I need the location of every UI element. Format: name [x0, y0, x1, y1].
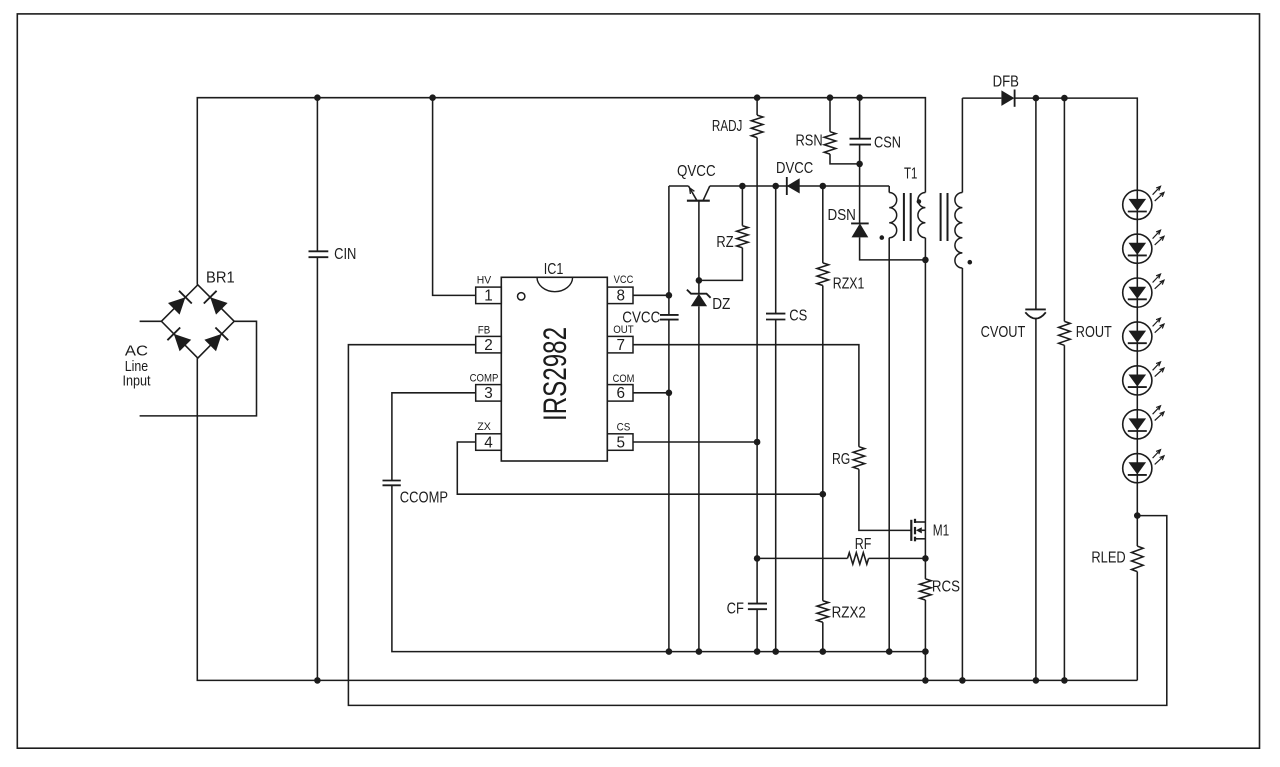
pin 7 box — [607, 336, 633, 353]
svg-text:2: 2 — [484, 337, 493, 354]
svg-text:IC1: IC1 — [544, 261, 564, 278]
svg-text:QVCC: QVCC — [677, 163, 716, 180]
wire OUT pin7 to RG — [633, 345, 859, 447]
T1 core bars left — [903, 193, 905, 241]
svg-text:RG: RG — [832, 451, 850, 468]
svg-text:VCC: VCC — [614, 274, 634, 286]
svg-text:IRS2982: IRS2982 — [537, 327, 573, 421]
wire HV from bus to pin 1 — [433, 98, 476, 296]
svg-text:CCOMP: CCOMP — [400, 489, 448, 506]
wire CVCC to ground rail — [668, 320, 670, 652]
wire RG to M1 gate — [859, 469, 911, 530]
BR1 diode top-left — [168, 297, 185, 314]
junction dots — [314, 94, 321, 101]
svg-text:RZX1: RZX1 — [833, 276, 865, 293]
LED D4 — [1123, 322, 1152, 351]
T1 secondary winding — [961, 98, 963, 192]
wire primary bottom to M1 drain — [924, 260, 926, 522]
resistor ROUT — [1063, 98, 1065, 321]
svg-text:COMP: COMP — [470, 372, 499, 384]
pin 1 box — [476, 287, 502, 304]
svg-text:HV: HV — [477, 275, 492, 287]
T1 primary phase dot — [917, 199, 922, 204]
LED D2 — [1123, 234, 1152, 263]
svg-text:COM: COM — [613, 373, 635, 385]
pin 6 box — [607, 385, 633, 402]
resistor RF — [757, 557, 847, 559]
capacitor CVCC — [660, 314, 679, 316]
wire LED string connectors — [1136, 219, 1138, 234]
svg-text:RSN: RSN — [796, 132, 823, 149]
LED D5 — [1123, 366, 1152, 395]
pin 3 box — [476, 385, 502, 402]
wire CS pin5 — [633, 441, 757, 443]
svg-text:RCS: RCS — [932, 579, 960, 596]
svg-text:T1: T1 — [904, 166, 917, 183]
T1 primary winding — [918, 193, 926, 238]
svg-text:3: 3 — [484, 385, 493, 402]
svg-text:AC: AC — [125, 344, 148, 360]
capacitor CS — [766, 313, 785, 315]
LED D1 — [1123, 190, 1152, 219]
capacitor CF — [748, 603, 767, 605]
svg-text:1: 1 — [484, 288, 493, 305]
svg-text:RZ: RZ — [716, 234, 733, 251]
T1 core bars right — [940, 193, 942, 241]
pin 4 box — [476, 434, 502, 451]
resistor RCS — [924, 558, 926, 579]
wire RZ bottom — [699, 248, 743, 281]
svg-text:RADJ: RADJ — [712, 118, 743, 135]
wire ground rail upper — [392, 485, 926, 680]
svg-text:5: 5 — [616, 434, 625, 451]
wire top bus — [197, 98, 925, 285]
diode DFB — [1001, 90, 1014, 106]
wire LED7 to RLED node — [1136, 483, 1138, 546]
resistor RADJ — [756, 98, 758, 115]
LED D7 — [1123, 454, 1152, 483]
zener diode DZ — [698, 280, 700, 293]
resistor RSN — [829, 98, 831, 132]
node AC line input stub upper — [140, 320, 162, 322]
BR1 diode bottom-left — [174, 334, 191, 351]
transistor M1 — [910, 520, 912, 541]
wire VCC pin8 — [633, 294, 669, 296]
svg-text:BR1: BR1 — [206, 269, 235, 286]
wire ZX pin4 to RZX divider — [457, 442, 823, 494]
BR1 diode bottom-right — [204, 334, 221, 351]
svg-text:DZ: DZ — [712, 296, 730, 313]
svg-text:8: 8 — [616, 288, 625, 305]
svg-text:4: 4 — [484, 434, 493, 451]
resistor RZX2 — [817, 601, 829, 623]
diode DVCC — [787, 178, 800, 193]
pin 8 box — [607, 287, 633, 304]
BR1 diode top-right — [210, 297, 227, 314]
transistor QVCC — [669, 185, 689, 187]
resistor RLED — [1132, 546, 1144, 572]
pin 2 box — [476, 336, 502, 353]
svg-text:RF: RF — [855, 536, 872, 553]
IC1 notch — [537, 277, 573, 291]
T1 aux winding — [888, 186, 890, 193]
svg-text:RLED: RLED — [1091, 550, 1125, 567]
capacitor CCOMP — [383, 480, 401, 482]
wire COM pin6 — [633, 392, 669, 394]
svg-text:CIN: CIN — [334, 246, 356, 263]
capacitor CVOUT — [1035, 98, 1037, 309]
pin 5 box — [607, 434, 633, 451]
wire VCC vertical — [668, 186, 670, 315]
svg-text:CS: CS — [617, 421, 631, 433]
svg-text:CF: CF — [727, 601, 744, 618]
IC1 pin1 marker circle — [518, 293, 525, 300]
diode DSN — [859, 164, 861, 224]
svg-text:ZX: ZX — [477, 421, 491, 433]
svg-text:M1: M1 — [933, 522, 950, 539]
bridge rectifier BR1 diamond — [161, 285, 234, 358]
resistor RZX1 — [822, 186, 824, 263]
wire RZ top — [741, 186, 743, 226]
op-amp IC1 body — [501, 277, 607, 461]
svg-text:Input: Input — [122, 374, 150, 390]
svg-text:FB: FB — [478, 324, 491, 336]
svg-text:CVCC: CVCC — [622, 309, 660, 326]
wire COMP pin3 to CCOMP — [392, 393, 476, 481]
svg-text:6: 6 — [616, 385, 625, 402]
svg-text:DFB: DFB — [993, 73, 1019, 90]
resistor RG — [853, 447, 865, 470]
svg-text:ROUT: ROUT — [1076, 324, 1112, 341]
wire CS cap top — [775, 186, 777, 314]
svg-text:RZX2: RZX2 — [832, 605, 866, 622]
svg-text:CS: CS — [789, 308, 807, 325]
T1 secondary phase dot — [968, 260, 973, 265]
svg-text:DVCC: DVCC — [776, 160, 813, 177]
LED D3 — [1123, 278, 1152, 307]
wire DVCC line — [742, 185, 889, 187]
svg-text:Line: Line — [125, 359, 148, 375]
resistor RZ — [737, 226, 749, 248]
svg-text:DSN: DSN — [828, 207, 856, 224]
wire DFB to LED string — [1015, 98, 1138, 190]
node AC line input stub lower — [140, 321, 257, 416]
svg-text:CSN: CSN — [874, 135, 901, 152]
wire ground rail lower — [197, 358, 1137, 680]
T1 aux phase dot — [880, 235, 885, 240]
capacitor CSN — [859, 98, 861, 139]
svg-text:7: 7 — [616, 337, 625, 354]
LED D6 — [1123, 410, 1152, 439]
svg-text:CVOUT: CVOUT — [981, 324, 1026, 341]
wire secondary top to DFB — [962, 97, 1001, 99]
capacitor CIN — [316, 98, 318, 252]
wire FB pin2 to RLED top — [348, 345, 1166, 706]
